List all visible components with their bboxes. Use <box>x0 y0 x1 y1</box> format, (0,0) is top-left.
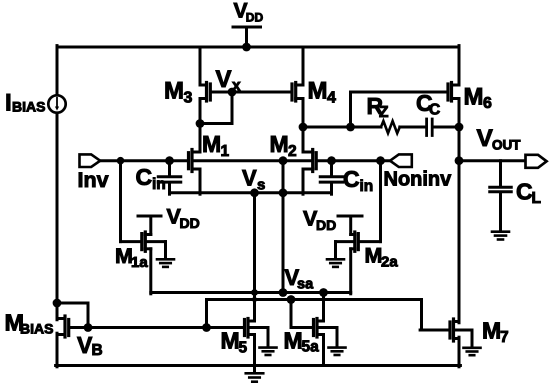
junction dot VB line / rail drop <box>202 323 211 332</box>
svg-text:I: I <box>5 89 12 116</box>
svg-text:5a: 5a <box>302 339 320 356</box>
svg-text:DD: DD <box>316 217 336 233</box>
transistor M2a (level shifter right) <box>351 232 359 251</box>
transistor M7 (output current sink) <box>450 319 459 341</box>
wire M2a bulk ground stem <box>334 242 337 259</box>
wire M5 bulk ground stem <box>267 328 270 347</box>
transistor M5 (tail current sink) <box>245 319 255 338</box>
svg-text:OUT: OUT <box>492 137 521 152</box>
transistor M1a (level shifter left) <box>142 232 151 251</box>
wire Vsa rail <box>151 291 351 294</box>
wire M5a drain up to Vsa rail <box>322 293 325 322</box>
svg-text:DD: DD <box>180 215 200 231</box>
junction dot bulk line / Vsa drop <box>279 156 288 165</box>
svg-text:Z: Z <box>379 104 389 121</box>
svg-text:M: M <box>284 328 303 354</box>
transistor M2 (input pair right) <box>303 150 316 172</box>
capacitor Cin (left input) <box>158 177 181 182</box>
wire M1a bulk ground stem <box>164 242 167 259</box>
svg-text:2: 2 <box>288 143 297 160</box>
wire M1 bulk to M2 bulk (body line) <box>193 159 311 162</box>
svg-text:M: M <box>202 131 221 157</box>
node Vx junction dot <box>228 88 237 97</box>
wire M3 source rail from top <box>199 47 202 85</box>
svg-text:V: V <box>242 166 257 191</box>
svg-text:C: C <box>516 179 533 205</box>
wire M7 gate lead <box>420 329 449 332</box>
wire M5a bulk ground stem <box>336 328 339 347</box>
svg-text:C: C <box>136 164 153 190</box>
ground (M2a bulk) <box>327 259 344 267</box>
svg-text:M: M <box>270 131 289 157</box>
svg-text:M: M <box>221 328 240 354</box>
junction dot CC / M6 drain <box>455 123 464 132</box>
wire MBIAS diode loop top <box>57 302 88 305</box>
svg-text:M: M <box>482 318 501 344</box>
svg-text:C: C <box>343 166 360 192</box>
wire M2a bulk lead <box>336 240 354 243</box>
wire bulk line down to Vsa rail <box>282 161 285 293</box>
svg-text:B: B <box>92 342 103 359</box>
wire VB line MBIAS gate to M5 gate <box>70 326 243 329</box>
svg-text:M: M <box>365 244 383 268</box>
svg-text:3: 3 <box>184 90 193 107</box>
wire Vx feedback loop down <box>231 92 234 124</box>
wire M3 drain down to M1 drain <box>199 99 202 153</box>
wire right column M6 source <box>458 46 461 85</box>
junction dot Vsa / M5a drain <box>319 288 328 297</box>
svg-text:Noninv: Noninv <box>384 169 453 191</box>
wire bottom ground rail <box>56 364 461 367</box>
capacitor CL (load) <box>490 187 512 192</box>
wire VB rail right segment down to M7 <box>420 300 423 331</box>
transistor M6 (PMOS output) <box>448 83 459 102</box>
junction dot VB / M5a gate tap <box>287 295 296 304</box>
junction dot M3 drain / M1 drain / Vx loop <box>196 119 205 128</box>
junction dot VOUT node <box>455 156 464 165</box>
wire M2a gate tap vertical <box>379 161 382 242</box>
wire Cin left bottom lead <box>168 184 171 195</box>
resistor RZ (zigzag) <box>381 121 400 133</box>
wire M5a source to bottom rail <box>322 335 325 366</box>
svg-text:L: L <box>532 190 541 207</box>
svg-text:2a: 2a <box>381 254 398 271</box>
svg-text:in: in <box>360 178 374 195</box>
svg-text:V: V <box>477 125 494 152</box>
wire CL bottom lead <box>499 193 502 231</box>
wire M7 bulk ground stem <box>471 330 474 347</box>
power VDD symbol (M2a) <box>338 216 362 235</box>
svg-text:M: M <box>464 84 484 111</box>
capacitor CC (series plates) <box>427 119 433 136</box>
wire M4 source rail from top <box>302 47 305 85</box>
wire left rail lower <box>56 333 59 367</box>
output terminal VOUT (arrow symbol) <box>526 155 547 168</box>
svg-text:sa: sa <box>297 277 314 293</box>
wire right column M6 drain to VOUT to M7 drain <box>458 99 461 323</box>
wire Vs rail (sources of M1/M2) <box>170 191 332 194</box>
wire M5a bulk lead <box>318 326 337 329</box>
ground (M1a bulk) <box>157 259 174 267</box>
transistor M4 (PMOS load) <box>292 83 303 102</box>
junction dot Noninv / M2a gate tap <box>376 156 385 165</box>
wire M5a gate lead <box>291 326 312 329</box>
wire Vx feedback loop left <box>200 122 231 125</box>
transistor M5a (aux tail current sink) <box>314 319 324 338</box>
wire compensation node to RZ <box>303 126 381 129</box>
wire M4 drain down to M2 drain <box>302 99 305 153</box>
svg-text:M: M <box>164 78 184 105</box>
junction dot Inv / Cin left <box>165 156 174 165</box>
wire CL top lead <box>499 161 502 186</box>
wire RZ to CC <box>400 126 425 129</box>
power VDD symbol (M1a) <box>138 216 161 235</box>
input terminal Inv (arrow symbol) <box>80 154 101 167</box>
junction dot Vsa / tail drop crossing <box>251 289 258 296</box>
wire M1a bulk lead <box>147 240 166 243</box>
wire Cin right top lead <box>330 161 333 176</box>
power VDD symbol (top) <box>233 27 261 47</box>
wire M1a gate lead <box>121 240 141 243</box>
wire VOUT line <box>459 159 526 162</box>
wire M2a gate lead <box>360 240 381 243</box>
input terminal Noninv (arrow symbol) <box>390 154 412 167</box>
wire VB rail left drop to M5 gate line <box>205 300 208 328</box>
wire M2a drain down to Vsa rail <box>349 249 352 294</box>
ground (M7 bulk) <box>464 348 481 355</box>
svg-text:V: V <box>216 66 232 93</box>
wire M5a gate tap vertical <box>290 300 293 328</box>
wire left rail middle <box>56 113 59 320</box>
svg-text:1: 1 <box>221 143 230 160</box>
wire M5 bulk lead <box>249 326 268 329</box>
wire left rail upper (IBIAS branch) <box>56 46 59 95</box>
wire top VDD rail <box>57 46 459 49</box>
wire Vs down to M5 drain <box>253 193 256 321</box>
svg-text:Inv: Inv <box>78 168 109 192</box>
junction dot RZ-CC node / M6 gate tap <box>346 123 355 132</box>
svg-text:M: M <box>308 78 328 105</box>
junction dot MBIAS drain loop / left rail <box>53 299 62 308</box>
wire M3 gate to M4 gate (Vx line) <box>212 91 291 94</box>
svg-text:7: 7 <box>500 329 509 346</box>
ground (M5a bulk) <box>329 348 346 355</box>
capacitor Cin (right input) <box>320 177 343 182</box>
wire M7 source to bottom rail <box>458 337 461 367</box>
wire MBIAS diode loop down <box>87 303 90 328</box>
ground (main (bottom rail)) <box>246 373 264 381</box>
transistor MBIAS (bias mirror, diode-connected) <box>57 316 69 337</box>
svg-text:1a: 1a <box>131 254 148 271</box>
svg-text:BIAS: BIAS <box>12 99 45 115</box>
svg-text:5: 5 <box>239 340 248 357</box>
wire Inv input line to M1 gate <box>100 159 187 162</box>
wire M1 source down to Vs rail <box>199 169 202 194</box>
junction dot MBIAS gate / VB <box>84 323 93 332</box>
wire M1a gate tap vertical <box>119 161 122 242</box>
current source IBIAS <box>48 95 65 112</box>
wire M5 source to bottom rail <box>253 335 256 366</box>
wire M2 source down to Vs rail <box>302 169 305 194</box>
junction dot Inv / M1a gate tap <box>117 157 125 165</box>
wire M6 gate lead <box>351 91 447 94</box>
wire M6 gate tap vertical <box>349 92 352 127</box>
junction dot M4 drain / compensation branch <box>299 123 308 132</box>
junction dot Vs rail / bulk drop <box>279 188 288 197</box>
wire M1a drain down to Vsa rail <box>149 249 152 294</box>
svg-text:in: in <box>152 176 166 193</box>
wire main ground stem <box>253 366 256 373</box>
wire M2 gate to Noninv input <box>318 159 391 162</box>
wire Cin left top lead <box>168 161 171 176</box>
junction dot Vs / tail drop <box>250 188 259 197</box>
svg-text:BIAS: BIAS <box>20 320 53 336</box>
wire VB distribution rail <box>207 298 422 301</box>
wire CC to M6 drain <box>434 126 459 129</box>
svg-text:C: C <box>429 102 440 119</box>
svg-text:6: 6 <box>483 95 492 112</box>
transistor M3 (PMOS load, diode-connected) <box>200 83 210 102</box>
svg-text:4: 4 <box>327 90 336 107</box>
wire Cin right bottom lead <box>330 184 333 195</box>
svg-text:DD: DD <box>246 11 264 25</box>
ground (M5 bulk) <box>260 348 277 355</box>
ground (CL) <box>492 232 509 240</box>
wire M7 bulk lead <box>455 329 472 332</box>
junction dot VDD / top rail <box>242 43 251 52</box>
small junction VB rail / tail crossing <box>252 297 257 302</box>
junction dot Vsa / bulk drop <box>279 288 288 297</box>
transistor M1 (input pair left) <box>189 150 201 172</box>
junction dot Noninv / Cin right <box>327 156 336 165</box>
